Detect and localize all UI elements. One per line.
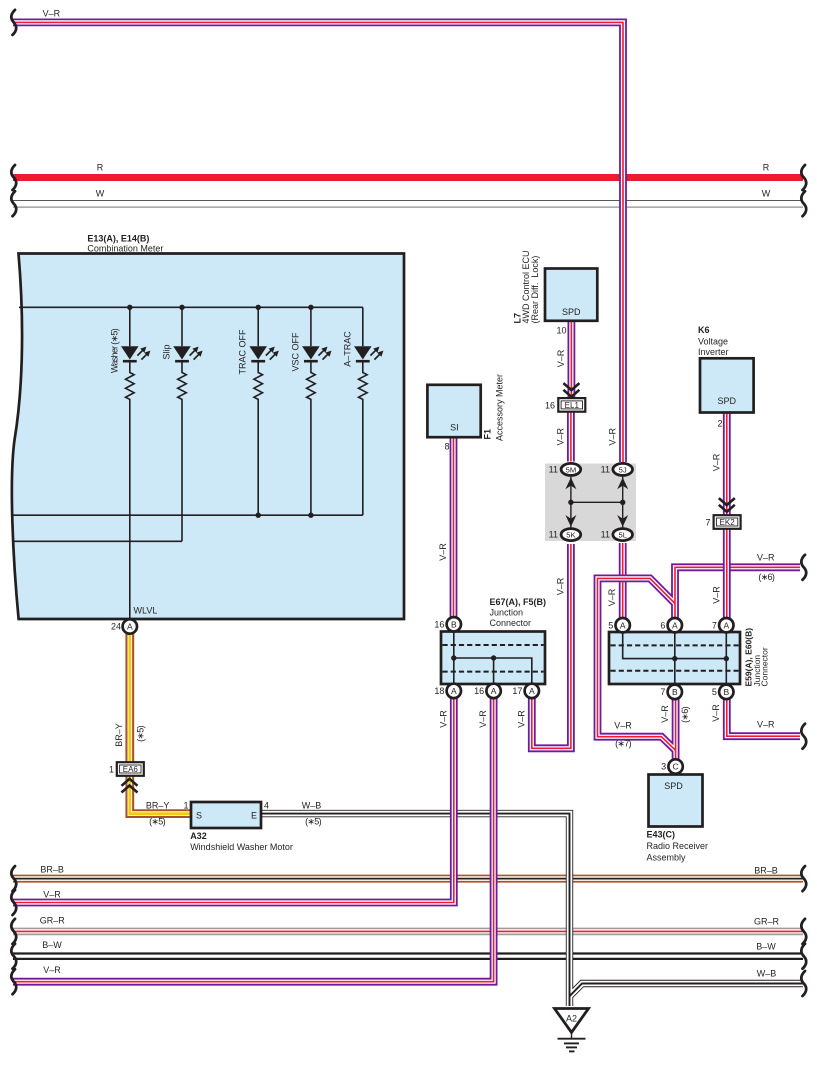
pin 7 A of E59 (719, 618, 733, 632)
svg-text:SI: SI (450, 423, 459, 433)
svg-text:A: A (127, 622, 133, 632)
wire V-R from EL1 to 5M (567, 412, 575, 462)
svg-text:S: S (196, 811, 202, 821)
E59 internal bus (623, 632, 727, 684)
svg-text:E13(A), E14(B): E13(A), E14(B) (87, 234, 149, 244)
svg-text:V–R: V–R (607, 588, 617, 606)
pin 17 A of E67 (525, 684, 539, 698)
shield drain lines between 5M 5K and 5J 5L (571, 476, 623, 528)
break top V-R (11, 10, 16, 35)
ground symbol hatching (558, 1032, 586, 1051)
svg-text:BR–B: BR–B (40, 865, 64, 875)
svg-text:(∗6): (∗6) (758, 572, 774, 582)
svg-text:V–R: V–R (556, 349, 566, 367)
svg-text:W–B: W–B (757, 969, 777, 979)
F1 accessory meter box (427, 385, 480, 437)
wire V-R from E67 pin 16 to left bus (13, 696, 494, 982)
svg-text:V–R: V–R (757, 553, 775, 563)
ground A2 triangle (555, 1009, 589, 1033)
svg-text:B: B (451, 619, 457, 629)
svg-text:Washer (∗5): Washer (∗5) (109, 328, 119, 373)
connector EK2 (714, 515, 741, 529)
svg-text:B: B (672, 687, 678, 697)
break B-W right (801, 944, 806, 969)
svg-text:7: 7 (660, 687, 665, 697)
wire V-R from K6 pin 2 to EK2 (723, 412, 731, 514)
svg-text:8: 8 (444, 442, 449, 452)
combination meter E13(A), E14(B) box (12, 254, 404, 620)
break GR-R left (11, 919, 16, 944)
resistor slip indicator (178, 361, 187, 541)
svg-text:(Rear Diff. Lock): (Rear Diff. Lock) (530, 256, 540, 324)
svg-text:Junction: Junction (490, 608, 524, 618)
svg-text:A: A (529, 686, 535, 696)
svg-text:V–R: V–R (711, 453, 721, 471)
svg-text:(∗6): (∗6) (680, 706, 690, 722)
break B-W left (11, 944, 16, 969)
svg-text:V–R: V–R (757, 720, 775, 730)
meter internal top bus (19, 306, 363, 308)
break V-R bus5 left (11, 969, 16, 994)
svg-text:V–R: V–R (556, 577, 566, 595)
LED A-TRAC indicator (354, 346, 383, 361)
pin 18 A of E67 (447, 684, 461, 698)
svg-text:(∗5): (∗5) (305, 816, 321, 826)
wire V-R from L7 pin 10 to EL1 (568, 321, 576, 398)
break W left (11, 191, 16, 216)
washer lamp column wire (129, 307, 131, 346)
svg-text:V–R: V–R (660, 705, 670, 723)
svg-text:(∗7): (∗7) (615, 739, 631, 749)
svg-text:E67(A), F5(B): E67(A), F5(B) (490, 597, 547, 607)
pin 7 B of E59 (668, 685, 682, 699)
connector 5M (561, 463, 581, 475)
svg-text:A: A (451, 686, 457, 696)
svg-text:4: 4 (264, 801, 269, 811)
arrow into EK2 (719, 498, 735, 512)
break BR-B left (11, 866, 16, 891)
wire W-B from A32 to ground and W-B bus right (261, 814, 803, 1006)
wire GR-R bus (13, 928, 803, 936)
svg-text:BR–B: BR–B (754, 865, 778, 875)
svg-text:V–R: V–R (478, 710, 488, 728)
svg-text:5: 5 (712, 687, 717, 697)
break W-B right (801, 971, 806, 996)
svg-text:WLVL: WLVL (134, 606, 158, 616)
wire V-R from E67 pin 18 to left bus (13, 696, 454, 903)
E59 dashed separators (611, 645, 739, 670)
svg-text:BR–Y: BR–Y (114, 723, 124, 747)
svg-text:11: 11 (549, 530, 558, 540)
svg-text:SPD: SPD (664, 781, 683, 791)
wire W bus (13, 200, 803, 207)
svg-text:Voltage: Voltage (698, 337, 728, 347)
svg-text:GR–R: GR–R (40, 916, 66, 926)
connector EL1 (558, 398, 585, 412)
svg-text:18: 18 (434, 686, 444, 696)
wire BR-Y from meter pin 24 to A32 (130, 633, 191, 814)
break V-R (*6) right (801, 555, 806, 580)
svg-text:5: 5 (608, 620, 613, 630)
svg-text:Accessory Meter: Accessory Meter (495, 374, 505, 441)
svg-text:24: 24 (111, 622, 121, 632)
svg-text:A32: A32 (190, 831, 207, 841)
arrow into EL1 (563, 383, 579, 397)
break W right (801, 191, 806, 216)
svg-text:Radio Receiver: Radio Receiver (647, 841, 709, 851)
svg-text:TRAC OFF: TRAC OFF (238, 329, 248, 374)
svg-text:BR–Y: BR–Y (146, 801, 170, 811)
svg-text:W–B: W–B (302, 801, 322, 811)
svg-text:W: W (96, 189, 105, 199)
pin 16 A of E67 (486, 684, 500, 698)
svg-text:Slip: Slip (162, 344, 172, 359)
break BR-B right (801, 866, 806, 891)
resistor washer indicator (126, 361, 135, 618)
svg-text:F1: F1 (483, 429, 493, 440)
svg-text:11: 11 (601, 530, 610, 540)
pin 5 B of E59 (719, 685, 733, 699)
LED TRAC OFF indicator (249, 346, 278, 361)
svg-text:3: 3 (661, 762, 666, 772)
break V-R 5B right (801, 724, 806, 749)
svg-text:R: R (97, 163, 104, 173)
svg-text:C: C (673, 762, 679, 772)
meter internal lower line 1 (14, 514, 363, 516)
svg-text:V–R: V–R (43, 890, 61, 900)
svg-text:2: 2 (717, 419, 722, 429)
svg-text:A: A (620, 620, 626, 630)
svg-text:5M: 5M (566, 465, 577, 474)
LED slip indicator (173, 346, 202, 361)
wire BR-B bus (13, 875, 803, 883)
svg-text:Connector: Connector (759, 647, 769, 686)
svg-text:Combination Meter: Combination Meter (87, 244, 163, 254)
svg-text:V–R: V–R (516, 710, 526, 728)
svg-text:A: A (723, 620, 729, 630)
svg-text:V–R: V–R (43, 9, 61, 19)
LED VSC OFF indicator (302, 346, 331, 361)
svg-text:V–R: V–R (43, 965, 61, 975)
svg-text:A: A (672, 620, 678, 630)
svg-text:17: 17 (512, 686, 522, 696)
svg-text:V–R: V–R (556, 427, 566, 445)
svg-text:16: 16 (474, 686, 484, 696)
arrow into EA6 (122, 779, 138, 793)
svg-text:V–R: V–R (614, 721, 632, 731)
wire V-R from 5L to E59 pin 5A (619, 543, 627, 619)
svg-text:16: 16 (434, 620, 444, 630)
svg-text:R: R (763, 163, 770, 173)
resistor A-TRAC indicator (359, 361, 368, 515)
svg-text:10: 10 (556, 326, 566, 336)
svg-text:A–TRAC: A–TRAC (342, 331, 352, 367)
break R left (11, 165, 16, 190)
resistor VSC OFF indicator (307, 361, 316, 515)
meter internal lower line 2 (14, 540, 183, 542)
svg-text:(∗5): (∗5) (149, 816, 165, 826)
svg-text:11: 11 (549, 464, 558, 474)
junction dots on meter buses (127, 305, 313, 518)
E43(C) radio receiver assembly box (649, 775, 703, 827)
E67 dashed separators (443, 645, 544, 672)
wire V-R from EK2 to E59 pin 7A (723, 529, 731, 619)
svg-text:E: E (251, 811, 257, 821)
pin 16 B of E67 (447, 617, 461, 631)
wire V-R from 5K to E67 pin 17 (532, 544, 571, 748)
break V-R bus2 left (11, 890, 16, 915)
wire B-W bus (13, 952, 803, 960)
LED washer indicator (121, 346, 150, 361)
svg-text:16: 16 (545, 400, 555, 410)
svg-text:V–R: V–R (711, 586, 721, 604)
pin 6 A of E59 (668, 618, 682, 632)
svg-text:1: 1 (183, 801, 188, 811)
svg-text:B: B (723, 687, 729, 697)
svg-text:E43(C): E43(C) (647, 830, 676, 840)
wire V-R from E59 pin 5B to right (727, 696, 800, 736)
pin 24 A of meter (123, 619, 137, 633)
K6 voltage inverter box (700, 358, 754, 412)
svg-text:1: 1 (109, 764, 114, 774)
svg-text:V–R: V–R (438, 543, 448, 561)
svg-text:B–W: B–W (42, 940, 62, 950)
resistor TRAC OFF indicator (254, 361, 263, 515)
pin 3 C of E43 (668, 759, 682, 773)
junction connector E59(A), E60(B) box (609, 632, 740, 684)
break R right (801, 165, 806, 190)
svg-text:5L: 5L (618, 531, 626, 540)
svg-text:GR–R: GR–R (754, 917, 780, 927)
svg-text:EL1: EL1 (565, 401, 580, 410)
svg-text:6: 6 (660, 620, 665, 630)
svg-text:7: 7 (712, 620, 717, 630)
svg-text:A: A (491, 686, 497, 696)
slip lamp column wire (181, 307, 183, 346)
svg-text:7: 7 (705, 517, 710, 527)
E67 internal bus (454, 632, 532, 685)
svg-text:SPD: SPD (562, 307, 581, 317)
svg-text:Assembly: Assembly (647, 853, 687, 863)
arrowheads on shield lines (565, 478, 628, 527)
pin 5 A of E59 (616, 618, 630, 632)
connector 5K (561, 529, 581, 541)
svg-text:(∗5): (∗5) (136, 725, 146, 741)
svg-text:V–R: V–R (438, 710, 448, 728)
wire V-R from F1 pin 8 to E67 pin 16B (450, 437, 458, 619)
junction connector E67(A), F5(B) box (441, 632, 545, 685)
connector 5L (613, 529, 633, 541)
svg-text:SPD: SPD (718, 396, 737, 406)
wire V-R top bus to 5J (13, 22, 623, 462)
svg-text:EA6: EA6 (123, 765, 139, 774)
svg-text:B–W: B–W (756, 941, 776, 951)
svg-text:5K: 5K (566, 531, 575, 540)
VSC OFF lamp column wire (310, 307, 312, 346)
svg-text:V–R: V–R (608, 427, 618, 445)
A-TRAC lamp column wire (362, 307, 364, 346)
svg-text:W: W (762, 189, 771, 199)
break GR-R right (801, 919, 806, 944)
svg-text:A2: A2 (566, 1014, 577, 1024)
svg-text:EK2: EK2 (720, 518, 736, 527)
svg-text:5J: 5J (619, 465, 627, 474)
connector EA6 (117, 762, 144, 776)
svg-text:Connector: Connector (490, 618, 532, 628)
A32 windshield washer motor box (191, 802, 261, 828)
wire V-R net 6A 7B 3C with (*6) and (*7) branches (598, 567, 801, 760)
svg-text:VSC OFF: VSC OFF (290, 332, 300, 372)
shielded junction gray background (545, 464, 636, 542)
svg-text:Windshield Washer Motor: Windshield Washer Motor (190, 842, 293, 852)
svg-text:11: 11 (601, 464, 610, 474)
svg-text:K6: K6 (698, 325, 710, 335)
L7 4WD control ECU box (545, 269, 597, 321)
svg-text:Inverter: Inverter (698, 347, 729, 357)
svg-text:V–R: V–R (711, 704, 721, 722)
TRAC OFF lamp column wire (257, 307, 259, 346)
connector 5J (613, 463, 633, 475)
wire R bus (13, 174, 803, 181)
